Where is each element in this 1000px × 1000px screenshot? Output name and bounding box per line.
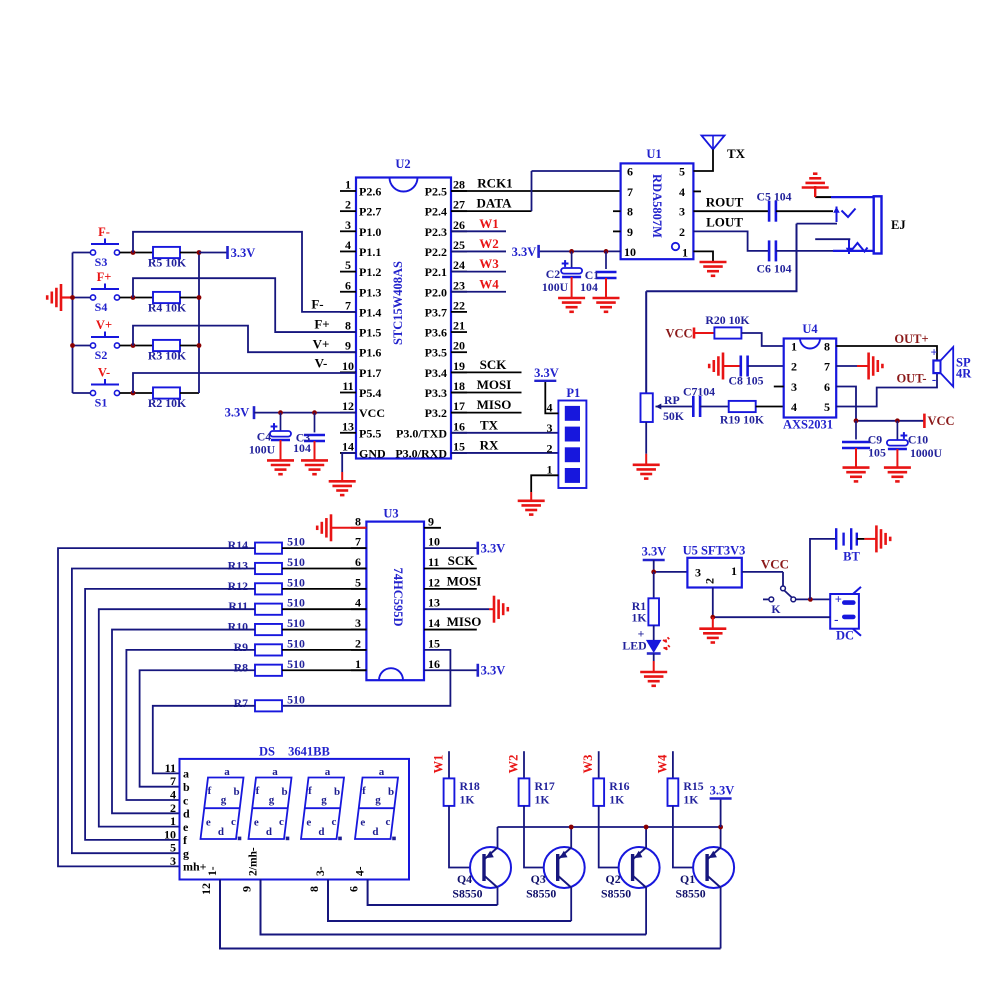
resistor R13 510 [255, 563, 282, 574]
U3 pin 11 [428, 555, 439, 569]
svg-text:1K: 1K [683, 793, 699, 807]
IC U5 SFT3V3 regulator body [683, 544, 746, 588]
svg-text:MISO: MISO [447, 614, 482, 629]
display pin 1 segment e [170, 814, 189, 834]
resistor R18 1K [444, 778, 455, 806]
wire C4 to ground [280, 440, 282, 460]
svg-text:P1.6: P1.6 [359, 346, 381, 360]
svg-text:3.3V: 3.3V [534, 366, 559, 380]
transistor Q2 S8550 [601, 847, 660, 901]
svg-text:+: + [930, 346, 937, 360]
label R18 [460, 779, 480, 807]
svg-text:g: g [269, 794, 275, 806]
U1 pin 1 [682, 245, 688, 259]
wire Q4 emitter to rail [497, 827, 499, 848]
svg-text:Q4: Q4 [457, 872, 472, 886]
svg-text:15: 15 [428, 636, 440, 650]
svg-text:7: 7 [627, 185, 633, 199]
wire ground stub to button bus [61, 296, 73, 298]
svg-text:C5 104: C5 104 [756, 190, 791, 204]
wire Q3 collector down [570, 888, 572, 922]
label R1 [631, 599, 647, 625]
node W2 stub at U2 [451, 236, 506, 252]
power 3.3V tick at rail [710, 797, 732, 799]
wire C5 to earphone jack tip [776, 210, 833, 212]
U2 pin 3 P1.0 [340, 218, 381, 239]
node W3 wire [581, 751, 599, 778]
node junction C4 [278, 410, 283, 415]
display DS 3641BB body [180, 745, 410, 880]
svg-text:1: 1 [791, 340, 797, 354]
wire U2 GND pin 14 to ground [342, 453, 356, 472]
ground under U2 GND [329, 481, 356, 495]
power 3.3V tick at buttons [226, 246, 229, 259]
wire Q3 emitter to rail [570, 827, 572, 848]
wire LOUT from U1 pin 2 [693, 215, 769, 251]
svg-text:e: e [183, 820, 189, 834]
svg-text:3.3V: 3.3V [710, 784, 735, 798]
display digit 2 seven-segment [249, 766, 292, 840]
svg-text:c: c [332, 816, 337, 828]
svg-text:3-: 3- [315, 866, 327, 876]
svg-text:mh+: mh+ [183, 860, 207, 874]
node W2 wire [507, 751, 525, 778]
wire VCC to C4 [280, 413, 282, 431]
wire P1 pin 4 to 3.3V [545, 381, 558, 414]
U1 pin 5 [679, 165, 685, 179]
svg-text:a: a [272, 766, 278, 778]
svg-text:P1.4: P1.4 [359, 305, 381, 319]
power 3.3V tick at U1 [537, 245, 540, 258]
svg-text:R14: R14 [228, 538, 248, 552]
svg-text:F-: F- [311, 296, 323, 311]
svg-text:f: f [256, 785, 260, 797]
svg-text:K: K [771, 602, 781, 616]
svg-text:P3.7: P3.7 [425, 305, 447, 319]
svg-text:g: g [183, 847, 189, 861]
U2 pin 14 GND [340, 439, 386, 460]
svg-text:W4: W4 [655, 754, 669, 774]
svg-text:F+: F+ [314, 317, 329, 332]
svg-text:S8550: S8550 [526, 887, 556, 901]
wire emitter rail 3.3V [498, 826, 721, 828]
node junctions on left bus [70, 295, 75, 348]
svg-text:C7104: C7104 [683, 385, 715, 399]
svg-text:V-: V- [98, 366, 110, 380]
resistor R1 1K [648, 598, 659, 625]
svg-text:510: 510 [287, 575, 305, 589]
svg-text:18: 18 [453, 379, 465, 393]
U2 pin 20 P3.5 [425, 339, 467, 360]
svg-text:7: 7 [824, 360, 830, 374]
IC U2 STC15W408AS body [356, 157, 451, 459]
svg-text:21: 21 [453, 319, 465, 333]
svg-text:W1: W1 [432, 755, 446, 774]
wire Q1 collector down [720, 888, 722, 949]
svg-text:P2.7: P2.7 [359, 205, 381, 219]
U2 pin 5 P1.2 [340, 258, 381, 279]
svg-text:15: 15 [453, 439, 465, 453]
svg-text:C10: C10 [908, 433, 928, 447]
U3 pin 1 [351, 657, 366, 671]
wire R1 to LED [653, 625, 655, 640]
ground left of U3 pin 8 (sideways) [317, 514, 331, 541]
svg-text:W1: W1 [479, 216, 499, 231]
wire C8 to U4 pin 2 [748, 365, 784, 367]
svg-text:8: 8 [307, 886, 321, 892]
svg-text:R9: R9 [234, 640, 249, 654]
svg-text:C8 105: C8 105 [728, 374, 763, 388]
wire ground stem [814, 186, 816, 197]
U3 pin 5 [351, 575, 366, 589]
svg-text:F-: F- [98, 225, 110, 239]
svg-text:6: 6 [345, 278, 351, 292]
svg-text:4: 4 [345, 238, 351, 252]
resistor R4 10K [153, 292, 180, 303]
svg-text:g: g [221, 794, 227, 806]
resistor R5 10K [153, 247, 180, 258]
capacitor C8 105 [741, 356, 748, 377]
capacitor C4 100U electrolytic [270, 423, 291, 440]
U2 pin 4 P1.1 [340, 238, 381, 259]
wire C3 to ground [314, 441, 316, 460]
svg-text:9: 9 [345, 339, 351, 353]
svg-text:3: 3 [355, 616, 361, 630]
svg-text:C9: C9 [868, 433, 883, 447]
svg-text:510: 510 [287, 535, 305, 549]
capacitor C1 104 [596, 272, 617, 278]
svg-text:100U: 100U [249, 443, 276, 457]
svg-text:3.3V: 3.3V [231, 246, 256, 260]
ground right of U3 pin 13 (sideways) [494, 596, 508, 623]
wire RP wiper arrow [656, 406, 694, 408]
node W1 stub at U2 [451, 216, 506, 232]
ground under C2 [558, 298, 585, 312]
U2 pin 22 P3.7 [425, 298, 467, 319]
U2 pin 27 P2.4 [425, 198, 467, 219]
svg-text:RDA5807M: RDA5807M [650, 174, 664, 238]
wire from jack to volume pot [646, 224, 796, 292]
svg-text:P2.0: P2.0 [425, 285, 447, 299]
svg-text:3641BB: 3641BB [288, 745, 330, 759]
wire U3 pin 10 to 3.3V [424, 547, 478, 549]
svg-text:f: f [362, 785, 366, 797]
ground under U5 pin 2 [699, 629, 726, 643]
svg-text:U3: U3 [383, 507, 398, 521]
wire digit2 common to Q2 [261, 880, 647, 935]
svg-text:C6 104: C6 104 [756, 262, 791, 276]
U3 pin 9 [424, 514, 441, 528]
wire rail to C9 [855, 421, 857, 440]
ground under C1 [593, 298, 620, 312]
wire right channel switch throw [797, 223, 838, 225]
wire OUT+ from U4 pin 8 to speaker [836, 332, 937, 361]
display bottom pin 9 digit 2 common [240, 847, 260, 892]
svg-text:1K: 1K [631, 611, 647, 625]
svg-text:19: 19 [453, 359, 465, 373]
svg-text:c: c [183, 793, 189, 807]
wire R13 to display segment [72, 569, 255, 854]
svg-text:2: 2 [170, 801, 176, 815]
svg-text:VCC: VCC [359, 406, 385, 420]
potentiometer RP 50K [641, 393, 685, 423]
svg-text:DS: DS [259, 745, 275, 759]
svg-text:f: f [208, 785, 212, 797]
svg-text:P2.6: P2.6 [359, 185, 381, 199]
svg-text:S3: S3 [95, 255, 108, 269]
node junction U5 pin 2 ground [710, 615, 715, 620]
svg-text:3.3V: 3.3V [512, 245, 537, 259]
wire switch to DC jack [796, 598, 831, 600]
power 3.3V tick at U5 [643, 559, 665, 561]
svg-text:LOUT: LOUT [706, 215, 743, 230]
capacitor C9 105 [842, 442, 870, 448]
svg-text:P1.5: P1.5 [359, 326, 381, 340]
svg-text:TX: TX [480, 417, 499, 432]
U2 pin 11 P5.4 [340, 379, 381, 400]
svg-text:TX: TX [727, 146, 746, 161]
svg-text:24: 24 [453, 258, 465, 272]
jack tip contact arrow left channel [848, 240, 850, 254]
svg-text:26: 26 [453, 218, 465, 232]
U2 pin 9 P1.6 [340, 339, 381, 360]
wire left channel switch throw [815, 238, 850, 240]
svg-text:VCC: VCC [665, 327, 692, 341]
svg-text:6: 6 [824, 380, 830, 394]
wire C10 to ground [896, 449, 898, 468]
svg-text:P1: P1 [566, 386, 580, 400]
svg-text:2: 2 [679, 225, 685, 239]
svg-text:U5 SFT3V3: U5 SFT3V3 [683, 544, 746, 558]
U2 pin 15 P3.0/RXD [395, 439, 467, 460]
wire MISO stub at U2 pin 17 [451, 397, 522, 413]
U1 pin 6 [627, 165, 633, 179]
U1 pin 8 [613, 205, 633, 219]
wire R20 to U4 pin 1 [741, 333, 783, 346]
wire digit1 common to Q1 [220, 880, 721, 949]
svg-text:8: 8 [627, 205, 633, 219]
wire RCK1 from U2 pin 28 to U1 pin 7 [451, 176, 621, 192]
U3 pin 12 [428, 575, 440, 589]
label R15 [683, 779, 703, 807]
speaker SP 4R [930, 346, 972, 387]
svg-text:3: 3 [345, 218, 351, 232]
U2 pin 21 P3.6 [425, 319, 467, 340]
wire left bus vertical of buttons [72, 253, 74, 394]
svg-text:16: 16 [453, 419, 465, 433]
wire U1 pin 5 to antenna [693, 150, 713, 172]
IC U4 AXS2031 body [783, 322, 836, 432]
svg-text:g: g [375, 794, 381, 806]
svg-text:2/mh-: 2/mh- [248, 847, 260, 876]
svg-text:P1.3: P1.3 [359, 285, 381, 299]
wire U5 pin 2 to DC jack minus [712, 588, 714, 618]
U4 pin 3 [774, 380, 797, 394]
U3 pin 2 [351, 636, 366, 650]
display pin 5 segment g [170, 841, 189, 861]
svg-text:7: 7 [355, 535, 361, 549]
svg-text:P1.1: P1.1 [359, 245, 381, 259]
svg-text:50K: 50K [663, 409, 685, 423]
svg-text:V-: V- [315, 356, 328, 371]
svg-text:R20 10K: R20 10K [705, 313, 750, 327]
svg-text:S8550: S8550 [676, 887, 706, 901]
svg-text:a: a [224, 766, 230, 778]
U2 pin 13 P5.5 [340, 419, 381, 440]
svg-text:e: e [206, 816, 211, 828]
svg-text:Q1: Q1 [680, 872, 695, 886]
U2 pin 26 P2.3 [425, 218, 467, 239]
battery BT [836, 528, 860, 563]
U2 pin 7 P1.4 [340, 298, 381, 319]
wire MOSI stub at U2 pin 18 [451, 377, 522, 393]
svg-text:25: 25 [453, 238, 465, 252]
wire R4 to pull-up bus [180, 297, 199, 299]
svg-text:OUT-: OUT- [896, 372, 926, 386]
svg-text:11: 11 [342, 379, 353, 393]
svg-text:5: 5 [355, 575, 361, 589]
U1 pin 3 [679, 205, 685, 219]
svg-text:U2: U2 [395, 157, 410, 171]
U1 pin 10 [624, 245, 636, 259]
svg-text:d: d [218, 826, 224, 838]
svg-text:10: 10 [624, 245, 636, 259]
svg-text:R16: R16 [609, 779, 629, 793]
wire LED to ground [653, 654, 655, 662]
switch S1 push button [90, 366, 119, 410]
svg-text:510: 510 [287, 596, 305, 610]
svg-text:3: 3 [791, 380, 797, 394]
svg-text:S2: S2 [95, 348, 108, 362]
svg-text:a: a [379, 766, 385, 778]
svg-text:OUT+: OUT+ [894, 332, 928, 346]
svg-text:g: g [321, 794, 327, 806]
wire digit4 common to Q4 [368, 880, 498, 906]
U3 pin 3 [351, 616, 366, 630]
label R16 [609, 779, 629, 807]
svg-text:1K: 1K [609, 793, 625, 807]
svg-text:R13: R13 [228, 559, 248, 573]
svg-text:P1.2: P1.2 [359, 265, 381, 279]
wire V- from S1 to U2 pin 10 [133, 373, 356, 393]
switch S4 push button [90, 270, 119, 314]
ground under C10 [884, 468, 911, 482]
svg-text:4: 4 [547, 400, 553, 414]
wire U3 pin 13 to ground [424, 608, 489, 610]
power VCC tick at R20 [693, 328, 696, 339]
svg-text:28: 28 [453, 178, 465, 192]
U1 pin 7 [627, 185, 633, 199]
diode LED [622, 627, 669, 654]
U2 pin 12 VCC [340, 399, 385, 420]
svg-text:10: 10 [342, 359, 354, 373]
connector EJ earphone jack body [874, 196, 906, 253]
ground left of C8 (sideways) [709, 353, 723, 380]
wire R14 to U3 pin 7 [282, 547, 366, 549]
wire R8 to U3 pin 1 [282, 669, 366, 671]
svg-text:a: a [325, 766, 331, 778]
svg-text:SCK: SCK [480, 357, 508, 372]
svg-text:1: 1 [731, 564, 737, 578]
svg-text:P2.1: P2.1 [425, 265, 447, 279]
display bottom pin 8 digit 3 common [307, 866, 327, 892]
resistor R2 10K [153, 387, 180, 398]
wire rail to C10 [896, 421, 898, 440]
svg-text:b: b [233, 786, 239, 798]
wire R12 to display segment [85, 589, 255, 840]
svg-text:6: 6 [355, 555, 361, 569]
wire R19 to U4 pin 4 [756, 406, 784, 408]
capacitor C6 104 [769, 240, 776, 261]
wire VCC to R20 [694, 332, 714, 334]
svg-text:P5.5: P5.5 [359, 426, 381, 440]
svg-text:11: 11 [428, 555, 439, 569]
svg-text:P3.0/RXD: P3.0/RXD [395, 446, 447, 460]
svg-text:2: 2 [547, 442, 553, 456]
wire R17 to Q3 base [524, 806, 558, 868]
svg-text:510: 510 [287, 636, 305, 650]
U3 pin 14 [428, 616, 440, 630]
wire junction to ground [712, 617, 714, 629]
svg-text:510: 510 [287, 657, 305, 671]
display bottom pin 12 digit 1 common [199, 866, 219, 895]
wire U3 pin 15 to R7 [281, 650, 450, 706]
resistor R8 510 [255, 665, 282, 676]
node junction at BT [808, 597, 813, 602]
capacitor C5 104 [769, 201, 776, 222]
svg-text:MOSI: MOSI [447, 573, 482, 588]
svg-text:RCK1: RCK1 [477, 176, 512, 191]
svg-text:f: f [308, 785, 312, 797]
ground under C9 [843, 468, 870, 482]
wire VCC rail under U4 [856, 420, 924, 422]
svg-text:VCC: VCC [761, 557, 789, 572]
switch S3 push button [90, 225, 119, 269]
svg-text:12: 12 [199, 883, 213, 895]
ground right of BT (sideways) [876, 525, 890, 552]
wire U4 pin 7 to ground [836, 365, 857, 367]
svg-text:U1: U1 [646, 147, 661, 161]
U2 pin 18 P3.3 [425, 379, 467, 400]
svg-text:100U: 100U [542, 280, 569, 294]
ground under C4 [267, 460, 294, 474]
svg-text:S1: S1 [95, 396, 108, 410]
wire digit3 common to Q3 [328, 880, 571, 922]
svg-text:c: c [231, 816, 236, 828]
svg-text:P2.3: P2.3 [425, 225, 447, 239]
wire U3 pin 8 to ground [331, 527, 366, 529]
wire to C1 [605, 251, 607, 269]
svg-text:1: 1 [682, 245, 688, 259]
svg-text:R17: R17 [535, 779, 555, 793]
svg-text:13: 13 [428, 596, 440, 610]
svg-text:P5.4: P5.4 [359, 386, 381, 400]
node junctions on pull-up bus [197, 250, 202, 348]
svg-text:V+: V+ [96, 318, 112, 332]
svg-text:P1.0: P1.0 [359, 225, 381, 239]
svg-text:C4: C4 [257, 430, 272, 444]
wire bus to S3 [73, 252, 91, 254]
resistor R12 510 [255, 583, 282, 594]
svg-text:8: 8 [824, 340, 830, 354]
wire R11 to display segment [99, 609, 255, 826]
U2 pin 1 P2.6 [340, 178, 381, 199]
svg-text:3: 3 [547, 421, 553, 435]
svg-text:EJ: EJ [891, 218, 906, 232]
node junction at S3 [131, 250, 136, 255]
svg-text:23: 23 [453, 278, 465, 292]
capacitor C10 1000U electrolytic [887, 432, 908, 449]
